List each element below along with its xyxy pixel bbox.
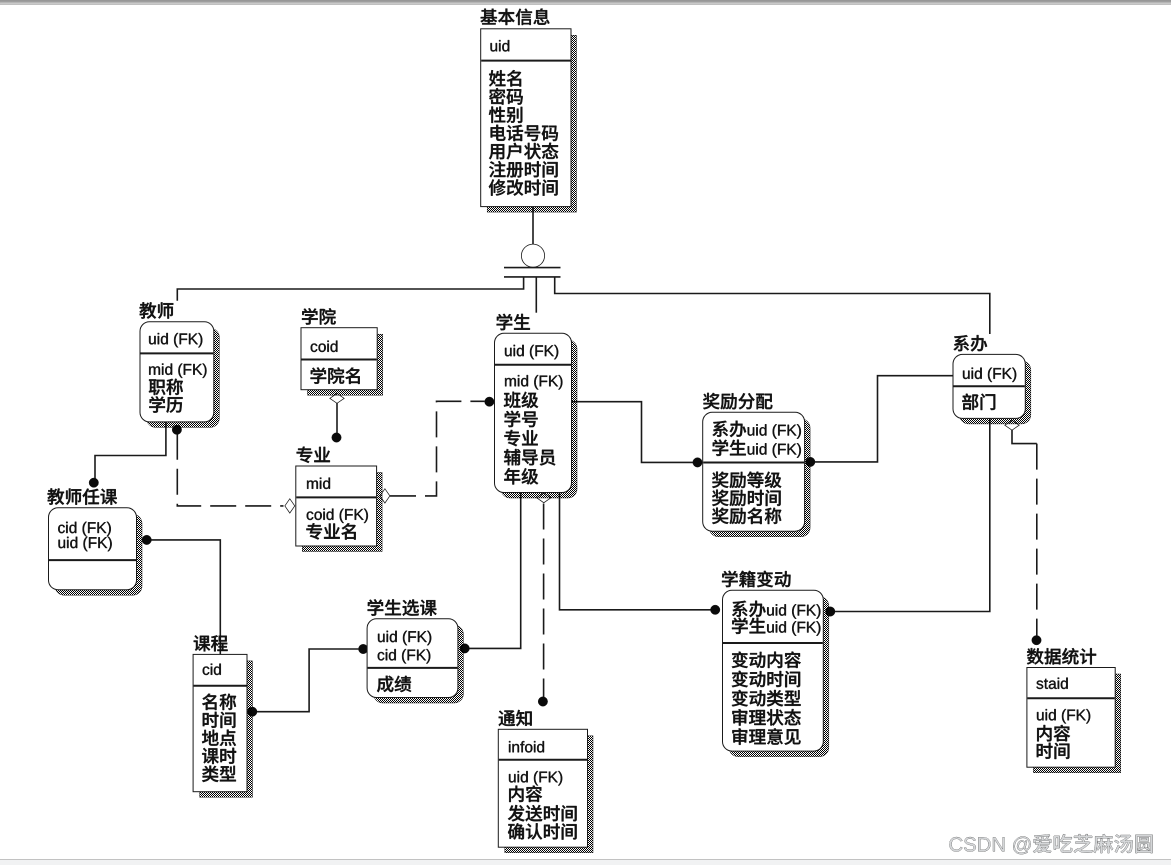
entity 学生: attribute 专业 (504, 430, 520, 446)
node: dot at 奖励分配 right (806, 457, 815, 466)
wire: 教师-专业 non-identifying (dashed) (177, 434, 283, 506)
subtype symbol circle (522, 245, 544, 267)
wire: subtype branch to 学生 (535, 277, 537, 313)
entity 数据统计: attribute 时间 (1037, 743, 1053, 759)
wire: 学生-学籍变动 relationship (560, 492, 712, 610)
node: diamond at 专业 end (285, 499, 294, 512)
entity 通知: attribute 发送时间 (508, 805, 525, 821)
entity 课程: attribute 名称 (202, 694, 216, 710)
entity 基本信息: attribute 注册时间 (489, 161, 505, 177)
entity 基本信息: box (487, 35, 576, 212)
node: dot at 教师 end (172, 425, 181, 434)
entity 基本信息: attribute 姓名 (489, 70, 505, 86)
wire: 专业-学生 non-identifying (dashed) (390, 401, 485, 496)
entity 数据统计: title 数据统计 (1027, 648, 1044, 664)
entity 学生: attribute mid (FK) (505, 378, 516, 386)
entity 学生: attribute 辅导员 (504, 449, 520, 465)
entity 课程: attribute cid (203, 667, 210, 676)
entity 学生: box (501, 340, 577, 498)
entity 学生: attribute 班级 (504, 392, 521, 408)
bottom gray strip (0, 860, 1171, 865)
entity 基本信息: attribute 修改时间 (489, 179, 506, 195)
wire: subtype stem from 基本信息 (532, 205, 534, 245)
wire: subtype branch to 系办 (555, 277, 990, 334)
node: diamond at 系办 end (1006, 421, 1019, 430)
entity 课程: attribute 课时 (202, 748, 219, 764)
wire: subtype branch to 教师 (177, 277, 523, 301)
entity 基本信息: attribute 用户状态 (489, 144, 504, 159)
node: dot at 课程 right (248, 707, 257, 716)
wire: 教师任课-课程 relationship (151, 540, 221, 655)
entity 教师任课: attribute cid (FK) (58, 525, 65, 534)
entity 教师任课: title 教师任课 (48, 488, 65, 504)
entity 通知: attribute infoid (509, 741, 510, 752)
entity 专业: box (302, 473, 382, 552)
entity 奖励分配: attribute 奖励时间 (712, 490, 728, 506)
node: dot at 数据统计 end (1032, 636, 1041, 645)
entity 教师: title 教师 (140, 302, 157, 318)
wire: 学生-学生选课 relationship (469, 492, 521, 648)
entity 奖励分配: attribute 奖励名称 (712, 508, 728, 524)
wire: 系办-奖励分配 relationship (815, 376, 955, 462)
node: dot at 专业 end (332, 433, 341, 442)
entity 学生选课: attribute 成绩 (377, 676, 394, 693)
entity 教师: attribute mid (FK) (149, 366, 160, 374)
entity 教师任课: attribute uid (FK) (59, 540, 66, 548)
entity 学籍变动: attribute 变动类型 (732, 690, 748, 707)
entity 学生选课: box (374, 625, 464, 703)
top page border shadow (0, 0, 1171, 1)
entity 学院: box (308, 334, 383, 395)
entity 教师任课: box (55, 514, 142, 595)
entity 学生: attribute 学号 (505, 411, 521, 427)
watermark CSDN @爱吃芝麻汤圆 (950, 837, 963, 851)
entity 教师: attribute 职称 (149, 379, 165, 395)
entity 系办: attribute uid (FK) (963, 371, 970, 379)
entity 基本信息: attribute 电话号码 (491, 125, 506, 141)
node: dot at 教师任课 end (89, 478, 98, 487)
entity 专业: title 专业 (297, 447, 313, 463)
entity 学籍变动: attribute 审理状态 (732, 709, 747, 726)
entity 系办: box (960, 361, 1031, 424)
entity 课程: box (200, 661, 253, 797)
entity 数据统计: attribute uid (FK) (1037, 712, 1044, 720)
entity 学院: title 学院 (302, 308, 318, 324)
entity 奖励分配: attribute 学生uid (FK) (713, 440, 729, 456)
node: dot at 学生选课 right (460, 644, 469, 653)
entity 通知: attribute uid (FK) (509, 774, 516, 782)
entity 专业: attribute coid (FK) (307, 512, 314, 521)
entity 学籍变动: attribute 学生uid (FK) (732, 618, 748, 634)
entity 奖励分配: title 奖励分配 (703, 393, 719, 409)
entity 学籍变动: title 学籍变动 (722, 571, 738, 587)
entity 学生: attribute 年级 (504, 468, 520, 484)
entity 通知: attribute 内容 (509, 786, 523, 802)
entity 学生选课: attribute cid (FK) (378, 652, 385, 661)
entity 课程: title 课程 (194, 635, 211, 651)
node: dot at 奖励分配 left (693, 458, 702, 467)
entity 教师: box (147, 328, 220, 427)
entity 数据统计: box (1033, 674, 1120, 773)
node: dot at 学生 end (485, 397, 494, 406)
entity 通知: box (505, 736, 593, 853)
entity 学生: attribute uid (FK) (505, 348, 512, 356)
entity 教师: attribute 学历 (149, 396, 165, 412)
node: diamond at 学院 end (331, 394, 344, 403)
node: dot at 学籍变动 right (826, 607, 835, 616)
entity 系办: attribute 部门 (962, 394, 978, 410)
entity 数据统计: attribute 内容 (1037, 725, 1051, 741)
node: diamond at 学生 end (537, 493, 550, 502)
wire: 学院-专业 relationship (336, 403, 338, 434)
entity 基本信息: attribute uid (491, 43, 498, 51)
node: dot at 学生选课 left (359, 644, 368, 653)
entity 专业: attribute 专业名 (306, 523, 322, 539)
entity 基本信息: attribute 密码 (489, 88, 505, 105)
entity 基本信息: attribute 性别 (489, 107, 505, 123)
wire: 系办-数据统计 non-identifying (dashed) (1012, 430, 1037, 444)
entity 学籍变动: box (729, 597, 829, 757)
entity 教师: attribute uid (FK) (149, 336, 156, 344)
node: diamond at 专业 end (380, 489, 389, 502)
entity 学籍变动: attribute 变动时间 (732, 671, 748, 688)
entity 数据统计: attribute staid (1036, 681, 1043, 690)
wire: 学生-奖励分配 relationship (571, 402, 693, 463)
entity 奖励分配: attribute 系办uid (FK) (713, 421, 729, 437)
entity 系办: title 系办 (954, 335, 970, 351)
entity 学生选课: title 学生选课 (368, 599, 384, 615)
wire: 教师-教师任课 identifying relationship (95, 422, 166, 479)
entity 学籍变动: attribute 变动内容 (732, 652, 748, 669)
entity 通知: attribute 确认时间 (508, 823, 524, 839)
entity 学院: attribute coid (311, 344, 318, 353)
node: dot at 学籍变动 left (711, 605, 720, 614)
entity 课程: attribute 时间 (203, 712, 219, 728)
entity 学生: title 学生 (497, 314, 513, 330)
entity 学籍变动: attribute 审理意见 (732, 728, 747, 745)
node: dot at 教师任课 right (142, 535, 151, 544)
entity 奖励分配: box (709, 419, 810, 537)
entity 课程: attribute 类型 (202, 766, 218, 782)
entity 学院: attribute 学院名 (311, 367, 327, 383)
entity 奖励分配: attribute 奖励等级 (712, 472, 728, 488)
entity 学籍变动: attribute 系办uid (FK) (732, 601, 748, 617)
entity 基本信息: title 基本信息 (481, 9, 498, 25)
wire: 课程-学生选课 relationship (257, 649, 359, 712)
subtype symbol double lines (504, 267, 561, 269)
entity 学生选课: attribute uid (FK) (378, 634, 385, 642)
entity 课程: attribute 地点 (202, 730, 219, 746)
entity 专业: attribute mid (307, 481, 318, 489)
wire: 系办-学籍变动 relationship (835, 418, 990, 612)
entity 通知: title 通知 (499, 711, 515, 727)
wire: 学生-通知 non-identifying (dashed) (543, 504, 545, 698)
node: dot at 通知 end (538, 697, 547, 706)
